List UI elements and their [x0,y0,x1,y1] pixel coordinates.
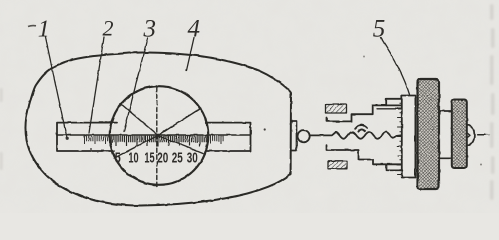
faint speck below ratchet [480,164,482,166]
svg-text:1: 1 [38,16,50,42]
micrometer sleeve (scale barrel) [402,96,416,178]
leader line 5 [381,38,410,95]
ruler bar left section [57,123,117,151]
frame bottom outer tube line [386,164,402,170]
svg-text:25: 25 [172,151,183,167]
dial hub dot [156,134,160,138]
svg-text:30: 30 [187,151,198,167]
leader line 2 [89,37,104,133]
frame bottom arm (stepped) [327,145,402,164]
stray speck under bar [90,148,92,150]
sleeve graduation ticks [397,99,402,175]
ratchet knob (small knurled) [452,100,467,169]
frame top arm (stepped) [327,105,402,121]
small dash artifact left of digit 1 [28,25,36,28]
micrometer thimble (large knurled) [418,79,440,189]
svg-text:10: 10 [128,151,138,167]
ruler bar midline [57,134,251,136]
svg-text:5: 5 [373,15,386,42]
leader line 3 [124,38,148,132]
dial spoke lower-right [158,136,203,154]
clamp top hatched block [326,105,347,114]
ruler tick marks [85,136,224,146]
body outline (dynamometer case) [26,52,291,205]
svg-text:5: 5 [115,151,121,167]
dial circle [110,86,209,185]
ratchet stem bottom line [439,157,452,159]
dial vertical dashed centerline [156,87,158,186]
dial spoke lower-left [119,136,158,156]
wire specimen (wavy) [310,132,402,139]
axis centerline dashes [477,134,485,136]
hook ring [298,130,310,142]
frame top inner line [377,108,402,110]
hook stub on right of body [291,122,297,151]
dial spoke upper-left [121,104,159,136]
wire kink mark [355,125,367,129]
ratchet end cap [467,125,475,145]
ruler bar right section [206,123,251,151]
stray speck right of bar [264,128,266,130]
ratchet stem top line [439,110,452,112]
dial spoke upper-right [158,108,201,136]
svg-text:2: 2 [103,16,114,41]
leader line 4 [187,38,195,71]
svg-text:20: 20 [157,151,168,167]
svg-text:15: 15 [144,151,154,167]
leader line 1 [46,38,68,139]
frame top outer tube line [386,99,402,106]
svg-text:3: 3 [143,15,157,42]
leader 1 end dot [66,137,69,140]
ratchet tip wedge [467,132,470,137]
faint dot left of digit 5 [363,56,365,58]
svg-text:4: 4 [188,15,201,42]
clamp bottom hatched block [328,161,347,169]
